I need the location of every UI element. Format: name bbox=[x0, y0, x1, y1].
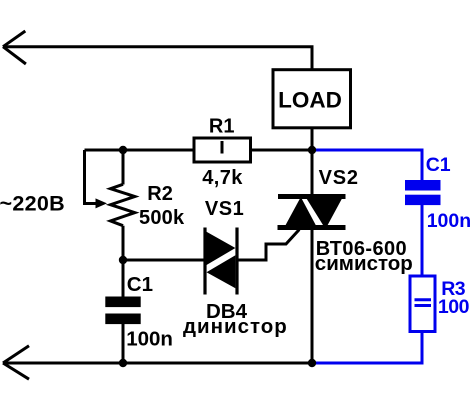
svg-text:100n: 100n bbox=[126, 327, 173, 350]
svg-text:100n: 100n bbox=[427, 210, 471, 232]
svg-text:500k: 500k bbox=[139, 207, 185, 229]
svg-text:C1: C1 bbox=[426, 154, 451, 176]
svg-text:100: 100 bbox=[438, 296, 470, 318]
svg-text:4,7k: 4,7k bbox=[202, 167, 243, 189]
svg-text:симистор: симистор bbox=[315, 252, 413, 275]
svg-text:R1: R1 bbox=[209, 116, 235, 138]
svg-text:VS1: VS1 bbox=[205, 198, 244, 220]
svg-text:LOAD: LOAD bbox=[278, 87, 342, 112]
svg-text:C1: C1 bbox=[127, 273, 153, 296]
svg-text:~220В: ~220В bbox=[0, 191, 65, 215]
svg-text:R2: R2 bbox=[147, 183, 173, 205]
svg-text:динистор: динистор bbox=[183, 315, 288, 338]
svg-text:VS2: VS2 bbox=[319, 167, 359, 189]
